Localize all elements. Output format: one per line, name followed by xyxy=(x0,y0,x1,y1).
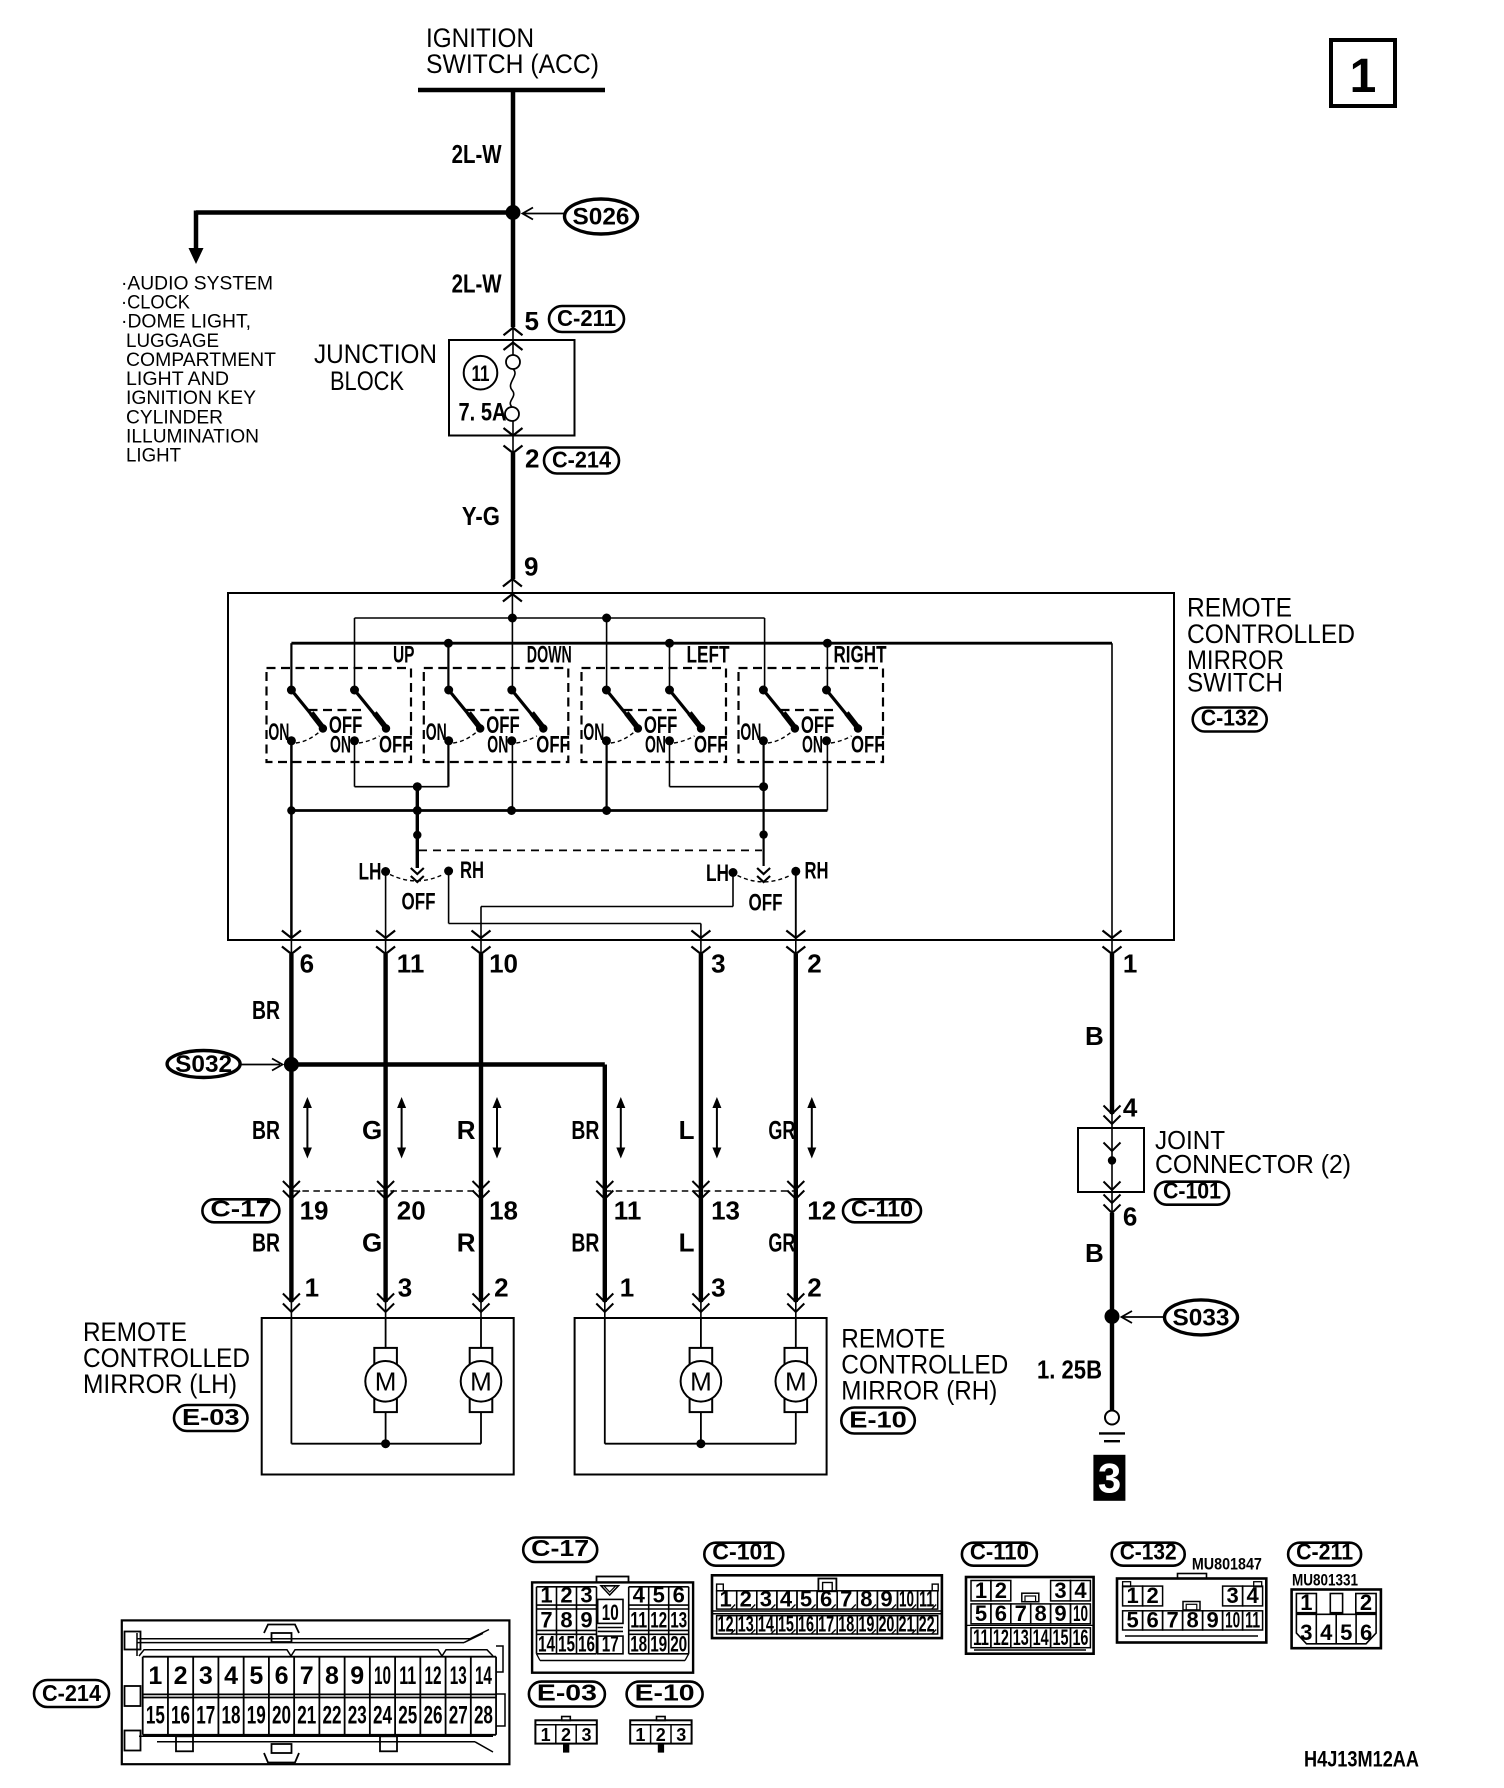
svg-text:15: 15 xyxy=(1053,1625,1069,1650)
splice S032 xyxy=(284,1057,299,1072)
svg-text:9: 9 xyxy=(1206,1608,1218,1633)
svg-text:C-214: C-214 xyxy=(42,1680,101,1706)
svg-text:ON: ON xyxy=(330,732,351,759)
switch RIGHT B xyxy=(822,686,831,695)
svg-text:M: M xyxy=(690,1367,712,1397)
pin 3 of mirror switch xyxy=(700,938,702,954)
svg-text:4: 4 xyxy=(1246,1583,1259,1608)
svg-text:C-211: C-211 xyxy=(1296,1539,1353,1565)
svg-text:RH: RH xyxy=(805,858,829,885)
wire LH contact to pin 11 xyxy=(385,872,387,939)
svg-text:OFF: OFF xyxy=(749,890,783,917)
svg-text:3: 3 xyxy=(1226,1583,1238,1608)
left selector RH contact xyxy=(444,867,453,876)
wire B to ground xyxy=(1110,1213,1114,1411)
junction block box xyxy=(449,340,575,436)
svg-text:BLOCK: BLOCK xyxy=(330,366,404,396)
svg-text:1: 1 xyxy=(975,1578,987,1603)
svg-text:MIRROR (LH): MIRROR (LH) xyxy=(83,1369,237,1399)
svg-text:11: 11 xyxy=(919,1587,934,1612)
svg-text:BR: BR xyxy=(252,995,280,1025)
svg-text:11: 11 xyxy=(397,949,425,979)
svg-text:6: 6 xyxy=(820,1587,832,1612)
wire R pin10 xyxy=(479,954,483,1302)
svg-text:BR: BR xyxy=(252,1115,280,1145)
svg-text:19: 19 xyxy=(650,1632,667,1657)
svg-text:10: 10 xyxy=(489,949,518,979)
svg-text:ON: ON xyxy=(583,719,604,746)
svg-text:2L-W: 2L-W xyxy=(452,139,502,169)
svg-text:5: 5 xyxy=(1340,1620,1352,1645)
connector C-110 boundary dashed xyxy=(605,1190,796,1192)
svg-text:12: 12 xyxy=(993,1625,1009,1650)
right selector RH contact xyxy=(791,867,800,876)
svg-text:15: 15 xyxy=(146,1702,165,1730)
svg-text:5: 5 xyxy=(1126,1608,1138,1633)
svg-text:OFF: OFF xyxy=(536,732,570,759)
svg-text:ON: ON xyxy=(487,732,508,759)
svg-text:3: 3 xyxy=(580,1583,592,1608)
svg-text:27: 27 xyxy=(449,1702,468,1730)
svg-text:1: 1 xyxy=(541,1725,551,1745)
svg-text:10: 10 xyxy=(1073,1601,1088,1626)
ignition switch bus bar xyxy=(418,88,605,93)
joint connector box C-101 xyxy=(1078,1128,1144,1192)
svg-text:4: 4 xyxy=(224,1662,238,1690)
switch group RIGHT inner dashed line xyxy=(781,709,836,711)
wire RIGHT-B down xyxy=(826,741,828,811)
switch DOWN A xyxy=(444,686,453,695)
svg-text:REMOTE: REMOTE xyxy=(1187,593,1292,623)
svg-text:1: 1 xyxy=(305,1273,319,1303)
mirror connector crossings xyxy=(290,1302,292,1318)
svg-text:11: 11 xyxy=(630,1608,647,1633)
svg-text:S033: S033 xyxy=(1173,1304,1230,1331)
svg-text:11: 11 xyxy=(472,361,490,386)
svg-text:18: 18 xyxy=(630,1632,647,1657)
motor M horizontal RH xyxy=(785,1348,808,1412)
remote controlled mirror LH box E-03 xyxy=(262,1318,514,1475)
pin 6 of mirror switch xyxy=(290,938,292,954)
svg-text:13: 13 xyxy=(1013,1625,1029,1650)
wire DOWN-A down xyxy=(447,741,449,787)
wire to pin 1 xyxy=(1111,643,1113,938)
svg-text:13: 13 xyxy=(711,1196,740,1226)
svg-text:6: 6 xyxy=(995,1601,1007,1626)
svg-text:7: 7 xyxy=(300,1662,314,1690)
svg-text:2: 2 xyxy=(525,444,539,474)
wire UP-A to pin 6 bus xyxy=(290,741,293,811)
svg-text:4: 4 xyxy=(1074,1578,1087,1603)
svg-text:13: 13 xyxy=(670,1608,687,1633)
wire GR pin2 xyxy=(794,954,798,1302)
LH mirror wires xyxy=(290,1318,292,1444)
svg-text:UP: UP xyxy=(393,642,415,669)
svg-text:10: 10 xyxy=(374,1662,391,1690)
left selector feed xyxy=(416,787,419,868)
svg-text:2: 2 xyxy=(560,1583,572,1608)
svg-text:12: 12 xyxy=(807,1196,836,1226)
switch group UP inner dashed line xyxy=(309,709,364,711)
svg-text:E-10: E-10 xyxy=(635,1680,695,1706)
svg-text:1: 1 xyxy=(1123,949,1137,979)
motor M vertical LH xyxy=(374,1348,397,1412)
svg-text:SWITCH (ACC): SWITCH (ACC) xyxy=(426,49,599,79)
svg-text:5: 5 xyxy=(975,1601,987,1626)
connector E-03 drawing xyxy=(535,1720,596,1743)
connector C-110 drawing xyxy=(966,1577,1094,1654)
connector E-03 label xyxy=(529,1682,605,1707)
svg-text:2: 2 xyxy=(740,1587,752,1612)
switch group RIGHT dashed box xyxy=(739,668,884,762)
fuse 7.5A xyxy=(506,355,520,369)
svg-text:14: 14 xyxy=(475,1662,492,1690)
connector E-10 drawing xyxy=(630,1720,691,1743)
switch group DOWN dashed box xyxy=(424,668,569,762)
svg-text:23: 23 xyxy=(348,1702,367,1730)
svg-text:6: 6 xyxy=(275,1662,289,1690)
svg-text:BR: BR xyxy=(571,1228,599,1258)
fuse number 11 xyxy=(464,356,498,390)
connector C-101 drawing xyxy=(712,1575,942,1638)
svg-text:1: 1 xyxy=(1300,1590,1312,1615)
splice S026 xyxy=(506,205,521,220)
svg-text:OFF: OFF xyxy=(379,732,413,759)
svg-text:B: B xyxy=(1085,1021,1104,1051)
wire RH contact to pin 3 xyxy=(448,871,450,924)
mirror switch box C-132 xyxy=(228,593,1174,940)
wire B pin1 xyxy=(1110,954,1114,1114)
svg-text:17: 17 xyxy=(196,1702,215,1730)
svg-text:2: 2 xyxy=(561,1725,571,1745)
svg-text:20: 20 xyxy=(670,1632,687,1657)
svg-text:7: 7 xyxy=(540,1608,552,1633)
svg-text:21: 21 xyxy=(297,1702,316,1730)
svg-text:C-17: C-17 xyxy=(531,1535,589,1561)
connector label C-17 xyxy=(202,1199,279,1222)
svg-text:2: 2 xyxy=(1146,1583,1158,1608)
svg-text:16: 16 xyxy=(171,1702,190,1730)
svg-text:C-132: C-132 xyxy=(1120,1539,1177,1565)
svg-text:ON: ON xyxy=(645,732,666,759)
connector C-17 label xyxy=(523,1538,597,1563)
svg-text:1: 1 xyxy=(540,1583,552,1608)
svg-text:OFF: OFF xyxy=(851,732,885,759)
svg-text:DOWN: DOWN xyxy=(527,642,572,669)
svg-text:6: 6 xyxy=(300,949,314,979)
svg-text:1: 1 xyxy=(1126,1583,1138,1608)
connector C-17 drawing xyxy=(532,1582,693,1672)
svg-text:2: 2 xyxy=(807,949,821,979)
svg-text:LH: LH xyxy=(359,859,382,886)
wire G pin11 xyxy=(383,954,387,1302)
svg-text:8: 8 xyxy=(1035,1601,1047,1626)
svg-text:C-17: C-17 xyxy=(210,1195,271,1221)
svg-text:3: 3 xyxy=(1300,1620,1312,1645)
wire right LH contact to pin 10 xyxy=(732,873,734,907)
svg-text:L: L xyxy=(679,1228,695,1258)
splice S033 xyxy=(1105,1309,1120,1324)
wire LEFT-A down xyxy=(605,741,607,811)
switch group LEFT inner dashed line xyxy=(624,709,679,711)
left selector LH contact xyxy=(381,867,390,876)
switch RIGHT A xyxy=(759,686,768,695)
svg-text:7: 7 xyxy=(1166,1608,1178,1633)
svg-text:SWITCH: SWITCH xyxy=(1187,668,1283,698)
svg-text:C-110: C-110 xyxy=(970,1539,1029,1565)
svg-text:16: 16 xyxy=(578,1632,595,1657)
arrow from S026 to splice xyxy=(524,213,565,215)
svg-text:RH: RH xyxy=(460,857,484,884)
switch DOWN B xyxy=(507,686,516,695)
wire Y-G xyxy=(511,453,516,579)
svg-text:8: 8 xyxy=(325,1662,339,1690)
svg-text:2: 2 xyxy=(807,1273,821,1303)
remote controlled mirror RH box E-10 xyxy=(575,1318,827,1475)
wire L pin3 xyxy=(699,954,703,1302)
svg-text:S032: S032 xyxy=(175,1051,232,1078)
wire UP-B down xyxy=(354,741,356,787)
switch group DOWN inner dashed line xyxy=(466,709,521,711)
svg-text:LIGHT: LIGHT xyxy=(126,445,181,467)
svg-text:1: 1 xyxy=(148,1662,162,1690)
svg-text:RIGHT: RIGHT xyxy=(834,642,887,669)
svg-text:26: 26 xyxy=(423,1702,442,1730)
svg-text:BR: BR xyxy=(571,1115,599,1145)
svg-text:11: 11 xyxy=(614,1196,642,1226)
svg-text:2: 2 xyxy=(995,1578,1007,1603)
common bus in switch xyxy=(291,809,827,812)
svg-text:4: 4 xyxy=(780,1587,793,1612)
wire right RH contact to pin 2 xyxy=(795,871,797,938)
switch group LEFT dashed box xyxy=(582,668,727,762)
svg-text:3: 3 xyxy=(199,1662,213,1690)
svg-text:9: 9 xyxy=(524,552,538,582)
svg-text:16: 16 xyxy=(1072,1625,1088,1650)
connector E-10 label xyxy=(627,1682,703,1707)
svg-text:E-03: E-03 xyxy=(537,1680,597,1706)
pin 1 of mirror switch xyxy=(1111,938,1113,954)
svg-text:5: 5 xyxy=(249,1662,263,1690)
svg-text:10: 10 xyxy=(602,1600,619,1625)
svg-text:17: 17 xyxy=(602,1632,619,1657)
svg-text:14: 14 xyxy=(538,1632,556,1657)
svg-text:C-214: C-214 xyxy=(552,447,611,473)
svg-text:3: 3 xyxy=(581,1725,591,1745)
svg-text:13: 13 xyxy=(450,1662,467,1690)
wire BR branch to RH mirror xyxy=(291,1062,604,1066)
connector C-101 label xyxy=(704,1543,783,1566)
svg-text:S026: S026 xyxy=(573,204,630,231)
bus 2 common xyxy=(291,642,1112,645)
bus 1 power xyxy=(355,617,765,619)
motor M vertical RH xyxy=(690,1348,713,1412)
svg-text:5: 5 xyxy=(653,1583,665,1608)
right selector LH contact xyxy=(729,868,738,877)
svg-text:9: 9 xyxy=(350,1662,364,1690)
page number box 1 xyxy=(1331,40,1395,106)
pin 10 of mirror switch xyxy=(480,938,482,954)
svg-text:E-03: E-03 xyxy=(182,1404,240,1430)
svg-text:1: 1 xyxy=(1350,50,1377,103)
svg-text:2: 2 xyxy=(1360,1590,1372,1615)
connector C-211 drawing xyxy=(1292,1590,1381,1649)
svg-text:GR: GR xyxy=(768,1228,795,1258)
svg-text:8: 8 xyxy=(560,1608,572,1633)
connector C-132 label xyxy=(1112,1543,1185,1566)
svg-text:3: 3 xyxy=(676,1725,686,1745)
svg-text:3: 3 xyxy=(760,1587,772,1612)
svg-text:MIRROR (RH): MIRROR (RH) xyxy=(841,1376,997,1406)
wire DOWN-B down xyxy=(511,741,513,811)
svg-text:3: 3 xyxy=(1098,1455,1121,1502)
svg-text:19: 19 xyxy=(300,1196,329,1226)
svg-text:11: 11 xyxy=(1245,1608,1260,1633)
svg-text:E-10: E-10 xyxy=(849,1407,907,1433)
svg-text:10: 10 xyxy=(1225,1608,1240,1633)
joint UP-B DOWN-A xyxy=(355,786,449,788)
svg-text:19: 19 xyxy=(247,1702,266,1730)
svg-text:Y-G: Y-G xyxy=(462,501,500,531)
selector mechanical link dashed xyxy=(419,849,762,851)
connector C-110 label xyxy=(962,1543,1037,1566)
pin 11 of mirror switch xyxy=(385,938,387,954)
branch wire to accessories xyxy=(196,210,513,215)
svg-text:GR: GR xyxy=(768,1115,795,1145)
svg-text:9: 9 xyxy=(1054,1601,1066,1626)
switch UP A xyxy=(287,686,296,695)
svg-text:1. 25B: 1. 25B xyxy=(1037,1355,1102,1385)
svg-text:4: 4 xyxy=(633,1583,646,1608)
svg-text:C-101: C-101 xyxy=(712,1539,775,1565)
connector C-17 boundary dashed xyxy=(291,1190,481,1192)
svg-text:3: 3 xyxy=(711,949,725,979)
svg-text:MU801847: MU801847 xyxy=(1192,1555,1262,1574)
svg-text:2: 2 xyxy=(656,1725,666,1745)
connector C-214 label xyxy=(34,1680,109,1707)
motor M horizontal LH xyxy=(470,1348,493,1412)
svg-text:6: 6 xyxy=(673,1583,685,1608)
svg-text:5: 5 xyxy=(800,1587,812,1612)
switch UP B xyxy=(350,686,359,695)
svg-text:R: R xyxy=(457,1115,476,1145)
svg-text:6: 6 xyxy=(1146,1608,1158,1633)
connector C-211 label xyxy=(1288,1543,1361,1566)
svg-text:1: 1 xyxy=(635,1725,645,1745)
switch LEFT A xyxy=(602,686,611,695)
svg-text:15: 15 xyxy=(558,1632,575,1657)
svg-text:18: 18 xyxy=(489,1196,518,1226)
pin 2 of mirror switch xyxy=(795,938,797,954)
RH mirror wires xyxy=(604,1318,606,1444)
svg-text:24: 24 xyxy=(373,1702,392,1730)
connector C-132 drawing xyxy=(1117,1579,1266,1643)
update arrows xyxy=(306,1105,308,1151)
svg-text:8: 8 xyxy=(1186,1608,1198,1633)
svg-text:5: 5 xyxy=(525,306,539,336)
svg-text:3: 3 xyxy=(711,1273,725,1303)
svg-text:6: 6 xyxy=(1123,1202,1137,1232)
svg-text:G: G xyxy=(362,1228,382,1258)
svg-text:C-110: C-110 xyxy=(851,1195,913,1221)
svg-text:3: 3 xyxy=(1054,1578,1066,1603)
svg-text:MU801331: MU801331 xyxy=(1292,1571,1358,1590)
svg-text:LH: LH xyxy=(706,860,729,887)
svg-text:ON: ON xyxy=(268,719,289,746)
switch LEFT B xyxy=(665,686,674,695)
svg-text:B: B xyxy=(1085,1238,1104,1268)
svg-text:2L-W: 2L-W xyxy=(452,269,502,299)
svg-text:9: 9 xyxy=(580,1608,592,1633)
svg-text:C-132: C-132 xyxy=(1201,705,1259,731)
svg-text:28: 28 xyxy=(474,1702,493,1730)
svg-text:OFF: OFF xyxy=(694,732,728,759)
svg-text:G: G xyxy=(362,1115,382,1145)
ground reference box 3 xyxy=(1093,1455,1125,1501)
svg-text:LEFT: LEFT xyxy=(687,642,730,669)
feed wire into switch xyxy=(511,594,513,690)
svg-text:R: R xyxy=(457,1228,476,1258)
svg-text:1: 1 xyxy=(620,1273,634,1303)
svg-text:12: 12 xyxy=(424,1662,441,1690)
svg-text:M: M xyxy=(375,1367,397,1397)
svg-text:M: M xyxy=(470,1367,492,1397)
svg-text:9: 9 xyxy=(880,1587,892,1612)
wire 2L-W upper xyxy=(511,90,516,327)
pin 6 of joint connector xyxy=(1111,1192,1113,1213)
svg-text:C-211: C-211 xyxy=(557,305,616,331)
svg-text:OFF: OFF xyxy=(402,889,436,916)
wire BR pin6 down xyxy=(290,811,293,939)
svg-text:4: 4 xyxy=(1123,1093,1138,1123)
joint LEFT-B RIGHT-A xyxy=(670,786,764,788)
svg-text:ON: ON xyxy=(426,719,447,746)
svg-text:3: 3 xyxy=(398,1273,412,1303)
svg-text:25: 25 xyxy=(398,1702,417,1730)
svg-text:ON: ON xyxy=(802,732,823,759)
svg-text:2: 2 xyxy=(174,1662,188,1690)
wire RIGHT-A down xyxy=(762,741,764,866)
svg-text:6: 6 xyxy=(1360,1620,1372,1645)
ground symbol xyxy=(1105,1411,1119,1425)
wire LEFT-B down xyxy=(669,741,671,787)
svg-text:11: 11 xyxy=(399,1662,416,1690)
svg-text:11: 11 xyxy=(973,1625,989,1650)
svg-text:7. 5A: 7. 5A xyxy=(459,399,507,427)
svg-text:JUNCTION: JUNCTION xyxy=(314,339,437,369)
svg-text:10: 10 xyxy=(899,1587,914,1612)
connector label C-110 xyxy=(843,1199,921,1222)
svg-text:20: 20 xyxy=(272,1702,291,1730)
svg-text:20: 20 xyxy=(397,1196,426,1226)
svg-text:1: 1 xyxy=(720,1587,732,1612)
svg-text:C-101: C-101 xyxy=(1163,1178,1221,1204)
svg-text:H4J13M12AA: H4J13M12AA xyxy=(1304,1747,1419,1772)
svg-text:18: 18 xyxy=(222,1702,241,1730)
svg-text:2: 2 xyxy=(494,1273,508,1303)
pin 2 of C-214 xyxy=(512,421,514,453)
svg-text:14: 14 xyxy=(1033,1625,1049,1650)
svg-text:7: 7 xyxy=(840,1587,852,1612)
svg-text:BR: BR xyxy=(252,1228,280,1258)
svg-text:L: L xyxy=(679,1115,695,1145)
svg-text:CONNECTOR (2): CONNECTOR (2) xyxy=(1155,1149,1351,1179)
pin 4 of joint connector xyxy=(1111,1114,1113,1128)
connector C-214 drawing xyxy=(122,1620,510,1764)
svg-text:22: 22 xyxy=(323,1702,342,1730)
svg-text:ON: ON xyxy=(740,719,761,746)
svg-text:8: 8 xyxy=(860,1587,872,1612)
